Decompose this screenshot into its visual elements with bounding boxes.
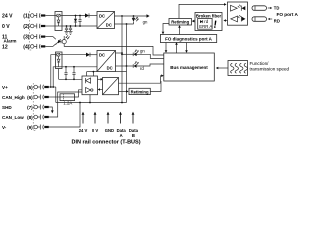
terminal 7 xyxy=(34,105,49,110)
capacitor to ground 2 xyxy=(69,25,73,34)
wire V+ input xyxy=(49,86,56,88)
svg-text:ERR A: ERR A xyxy=(199,24,212,29)
wire 0V rail xyxy=(62,25,97,27)
retiming box row1 xyxy=(169,19,192,26)
TVS diode between rails xyxy=(74,15,77,27)
wire FO diagnostics up to retiming1 (arrow up) xyxy=(178,25,181,34)
svg-text:SHD: SHD xyxy=(2,105,12,110)
filter rail to transceiver xyxy=(59,78,82,80)
alarm relay contact from terminals 3/4 xyxy=(45,37,60,47)
T-BUS labels xyxy=(79,128,139,138)
wire SHD to shield ground arrow xyxy=(49,107,54,113)
capacitor between rails xyxy=(78,15,81,27)
node dot rail2 top xyxy=(126,23,128,25)
wire fuse to transceiver xyxy=(75,90,83,97)
wire broken fiber to retiming (arrow left) xyxy=(192,20,195,23)
capacitor to ground 1 xyxy=(65,25,69,34)
supply rail vertical 2 xyxy=(126,24,128,103)
svg-text:Retiming: Retiming xyxy=(171,20,189,25)
svg-text:A: A xyxy=(120,133,123,138)
wire row2 top xyxy=(62,54,86,56)
terminal label V+ (5) xyxy=(2,85,33,90)
terminal 8 xyxy=(34,115,49,120)
svg-text:Retiming: Retiming xyxy=(131,90,149,95)
LED rd row2 xyxy=(127,61,164,68)
wire retiming1 left-down to FO diagnostics xyxy=(162,24,169,35)
CAN transceiver box xyxy=(82,76,98,95)
T-BUS arrow 24V xyxy=(82,112,85,124)
wire retiming1 up to TX xyxy=(179,4,224,18)
svg-text:Function/: Function/ xyxy=(250,61,270,66)
svg-text:(4): (4) xyxy=(23,44,30,50)
fuse 1.2A xyxy=(60,94,75,106)
svg-text:FO port A: FO port A xyxy=(277,12,299,17)
node dots on filter rail xyxy=(65,78,67,80)
wire retiming row3 to bus management bottom xyxy=(150,81,161,91)
svg-text:rd: rd xyxy=(140,66,144,71)
svg-text:Broken fiber: Broken fiber xyxy=(196,13,222,18)
svg-text:Bus management: Bus management xyxy=(170,65,208,70)
wire 24V rail xyxy=(62,15,85,17)
broken fiber box xyxy=(195,13,222,31)
svg-text:gn: gn xyxy=(140,48,145,53)
svg-text:1.2A: 1.2A xyxy=(63,100,72,105)
input protection box row2 xyxy=(56,52,63,69)
LED gn row2 xyxy=(121,50,164,59)
svg-text:(6): (6) xyxy=(27,95,33,100)
wire transceiver to iso (tx) xyxy=(98,78,104,81)
svg-text:(2): (2) xyxy=(23,24,30,30)
svg-text:transmission speed: transmission speed xyxy=(250,66,290,71)
terminal label 12 (4) xyxy=(2,44,30,50)
wire 0V input xyxy=(45,25,55,27)
wire 24V input xyxy=(45,15,55,17)
terminal label 0 V (2) xyxy=(2,24,30,30)
terminal 5 xyxy=(34,85,49,90)
wire V- xyxy=(49,103,80,128)
svg-text:(5): (5) xyxy=(27,85,33,90)
wire row2 bottom xyxy=(62,66,97,68)
series diode row1 xyxy=(85,13,97,17)
FO port connector TD xyxy=(252,6,272,11)
fiber optic TX/RX box xyxy=(228,2,248,25)
DC/DC converter 1 xyxy=(97,12,115,29)
T-BUS arrow GND xyxy=(107,112,110,124)
terminal 6 xyxy=(34,95,49,100)
DC/DC2 bottom edge taps to transceiver xyxy=(87,71,97,76)
wire iso out2 to bus management xyxy=(119,74,164,83)
wire V+ riser to protection row2 top xyxy=(51,55,56,87)
svg-text:gn: gn xyxy=(143,19,148,24)
supply rail vertical 1 xyxy=(121,16,123,103)
wire box2 bottom to rails xyxy=(116,71,127,73)
terminal label CAN_High (6) xyxy=(2,95,33,100)
wire iso to transceiver (rx) xyxy=(98,88,103,91)
series diode row2 xyxy=(86,53,97,57)
terminal label V- (9) xyxy=(2,125,33,130)
svg-text:(7): (7) xyxy=(27,105,33,110)
wire protection row2 down to filter rail xyxy=(58,69,60,80)
terminal label CAN_Low (8) xyxy=(2,115,33,120)
svg-text:CAN_High: CAN_High xyxy=(2,95,25,100)
wire riser to protection row2 bottom xyxy=(53,67,55,87)
filter capacitor row2 a xyxy=(64,66,67,79)
FO port connector RD xyxy=(252,17,272,22)
svg-text:CAN_Low: CAN_Low xyxy=(2,115,24,120)
T-BUS arrow Data B xyxy=(132,112,135,124)
arrowhead logic supply xyxy=(147,14,150,17)
svg-text:V+: V+ xyxy=(2,85,8,90)
wire iso to retiming row3 xyxy=(119,90,129,93)
svg-text:RD: RD xyxy=(274,18,280,23)
filter capacitor row2 b xyxy=(72,66,75,79)
svg-text:DC: DC xyxy=(99,53,105,58)
svg-text:24 V: 24 V xyxy=(2,13,13,19)
svg-text:DC: DC xyxy=(107,66,113,71)
svg-text:DC: DC xyxy=(106,23,112,28)
wire CAN_Low xyxy=(49,92,82,117)
LED gn row1 xyxy=(132,16,139,24)
wire DC/DC1 +out with arrow xyxy=(115,15,147,17)
svg-text:TD: TD xyxy=(274,6,280,11)
input protection box row1 xyxy=(55,12,62,31)
terminal 1 xyxy=(30,13,45,18)
node dot LED1 tap xyxy=(133,15,135,17)
wire CAN_High xyxy=(49,96,60,98)
svg-text:(1): (1) xyxy=(23,13,30,19)
wire DC/DC1 -out xyxy=(115,23,134,25)
optocoupler LED (alarm driver) xyxy=(58,40,61,43)
wire DC/DC2 out top xyxy=(116,52,123,54)
dashed connector bracket group 2 xyxy=(33,83,36,131)
svg-text:FO diagnostics port A: FO diagnostics port A xyxy=(165,36,213,41)
FO diagnostics port A box xyxy=(160,35,216,43)
wire DC/DC2 out bottom xyxy=(116,65,127,67)
wires FO diagnostics to bus management (3 arrows) xyxy=(165,43,168,53)
node dot rail1 top xyxy=(121,15,123,17)
svg-text:0 V: 0 V xyxy=(92,128,98,133)
wire function box to bus management (arrow left) xyxy=(216,67,228,70)
terminal label 11 (3) xyxy=(2,34,30,40)
terminal 9 xyxy=(34,125,49,130)
DC/DC converter 2 xyxy=(97,51,116,72)
optocoupler transistor xyxy=(62,35,69,43)
svg-text:DC: DC xyxy=(99,14,105,19)
wire TX/RX box to broken fiber (arrow left) xyxy=(223,19,227,22)
function / transmission speed DIP box xyxy=(228,61,248,76)
svg-text:DIN rail connector (T-BUS): DIN rail connector (T-BUS) xyxy=(71,140,140,146)
svg-text:12: 12 xyxy=(2,44,8,50)
wire alarm signal to bus management xyxy=(64,44,164,55)
svg-text:(9): (9) xyxy=(27,125,33,130)
label Function/transmission speed xyxy=(250,61,290,72)
svg-text:GND: GND xyxy=(105,128,114,133)
svg-text:Alarm: Alarm xyxy=(4,38,17,43)
svg-text:24 V: 24 V xyxy=(79,128,88,133)
svg-text:B: B xyxy=(132,133,135,138)
wire V+ down to bottom mesh xyxy=(55,87,57,103)
isolation barrier box xyxy=(103,78,119,95)
terminal label 24 V (1) xyxy=(2,13,30,19)
retiming box row3 xyxy=(129,88,150,94)
terminal label SHD (7) xyxy=(2,105,33,110)
terminal 4 xyxy=(30,44,45,49)
svg-text:(8): (8) xyxy=(27,115,33,120)
mesh wire bottom xyxy=(56,102,127,104)
svg-text:(3): (3) xyxy=(23,34,30,40)
dashed connector bracket group 1 xyxy=(30,11,33,50)
bus management box xyxy=(164,53,215,81)
svg-text:0 V: 0 V xyxy=(2,24,10,30)
svg-text:V-: V- xyxy=(2,125,7,130)
terminal 2 xyxy=(30,24,45,29)
terminal 3 xyxy=(30,34,45,39)
T-BUS arrow 0V xyxy=(94,112,97,124)
T-BUS arrow Data A xyxy=(119,112,122,124)
